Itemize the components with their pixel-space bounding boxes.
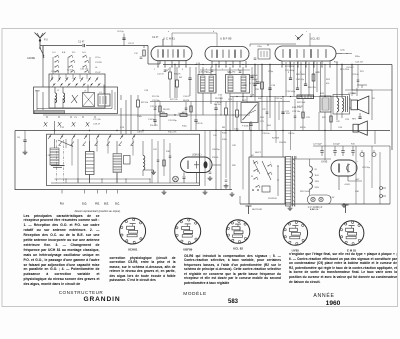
extra verticals T2 T3 gap	[251, 67, 253, 97]
density verticals right bottom	[355, 146, 357, 204]
UCL82 top cap symbol	[297, 34, 303, 40]
svg-text:6: 6	[182, 69, 183, 71]
svg-text:R18 1MΩ: R18 1MΩ	[296, 74, 305, 76]
svg-text:C28: C28	[232, 145, 237, 147]
third switch column	[54, 56, 55, 57]
svg-text:C7 1,5k: C7 1,5k	[93, 119, 101, 121]
socket UCH81	[120, 218, 146, 244]
footer 1960	[299, 300, 367, 307]
svg-text:L4: L4	[95, 67, 98, 69]
svg-text:6,3V: 6,3V	[330, 197, 335, 199]
svg-text:C2 1n: C2 1n	[95, 57, 101, 59]
svg-text:a: a	[168, 31, 170, 33]
svg-text:( EM 81 ): ( EM 81 )	[192, 155, 202, 157]
mid bus wire	[230, 96, 345, 98]
svg-text:HP2: HP2	[352, 119, 357, 121]
electrolytic C27	[360, 153, 364, 157]
left vertical wires upper	[42, 46, 44, 56]
svg-text:130V: 130V	[315, 181, 320, 183]
wire from tuner to antenna line	[123, 34, 125, 46]
svg-text:b: b	[213, 31, 214, 33]
resistor R4	[176, 80, 179, 87]
wires below mid bus to bottom	[261, 101, 263, 130]
svg-text:R25: R25	[322, 117, 327, 119]
svg-text:R20 22k: R20 22k	[308, 87, 317, 89]
misc caps on bus 115	[153, 119, 156, 121]
svg-text:C24: C24	[153, 149, 158, 151]
svg-text:P 500k: P 500k	[242, 126, 249, 128]
junction dots on buses	[174, 64, 175, 65]
svg-text:R12: R12	[334, 62, 339, 64]
bank to box verticals	[51, 74, 53, 79]
svg-text:B.E.: B.E.	[104, 203, 109, 206]
resistor R3	[169, 72, 172, 79]
svg-text:C24 4n7: C24 4n7	[346, 67, 354, 69]
trimmer row under box	[44, 122, 47, 127]
svg-text:C21: C21	[260, 121, 265, 123]
coil L1	[55, 93, 57, 103]
svg-text:C16: C16	[218, 95, 223, 97]
svg-text:SECT.: SECT.	[255, 152, 262, 154]
diagonal gang line	[58, 140, 73, 147]
svg-text:R4: R4	[179, 77, 183, 79]
svg-text:C25μ: C25μ	[268, 71, 274, 73]
extra verticals near pot	[220, 97, 222, 116]
ground left of caption	[163, 190, 165, 192]
svg-text:C12: C12	[60, 127, 65, 129]
coil L7 hatched	[50, 148, 59, 165]
svg-text:C24a: C24a	[340, 50, 346, 52]
antenna	[39, 38, 41, 48]
svg-text:110/220: 110/220	[279, 142, 287, 144]
trimmer row contacts	[46, 116, 47, 117]
svg-text:POT.: POT.	[242, 100, 247, 102]
tube UCH81	[151, 46, 192, 61]
svg-text:C27 50μF: C27 50μF	[313, 144, 323, 146]
tuner switch contacts row1	[51, 78, 52, 79]
svg-text:G.O.: G.O.	[82, 203, 87, 206]
svg-text:R22 1kΩ: R22 1kΩ	[297, 102, 306, 104]
filter capacitors row	[320, 150, 323, 152]
svg-text:1kΩ: 1kΩ	[267, 125, 271, 127]
svg-text:C18: C18	[144, 90, 149, 92]
svg-text:4: 4	[168, 69, 169, 71]
svg-text:C: 22n: C: 22n	[178, 113, 185, 115]
svg-text:C25: C25	[345, 119, 350, 121]
tube UCL82	[275, 46, 336, 61]
text column 1	[24, 214, 100, 288]
svg-text:R21 220k: R21 220k	[340, 69, 350, 71]
svg-text:R24: R24	[260, 117, 265, 119]
svg-text:CADRE: CADRE	[27, 57, 36, 60]
UY85 pins	[338, 176, 340, 190]
svg-text:6,3V: 6,3V	[310, 209, 315, 211]
svg-text:C: 470pF: C: 470pF	[249, 75, 258, 77]
text column 2	[110, 256, 176, 284]
coil element mid	[113, 154, 122, 173]
svg-text:R3 27k: R3 27k	[174, 74, 182, 76]
socket UCL82	[226, 220, 250, 244]
svg-text:C29: C29	[336, 121, 341, 123]
svg-text:+240V: +240V	[344, 184, 351, 186]
svg-text:R27 1M: R27 1M	[272, 138, 279, 140]
bottom rail power	[240, 203, 390, 205]
key symbol above UY85	[248, 206, 250, 214]
svg-text:C14 5n: C14 5n	[148, 119, 156, 121]
output transformer	[337, 98, 339, 112]
svg-text:R9 1MΩ: R9 1MΩ	[215, 98, 223, 100]
svg-text:B.E.: B.E.	[62, 52, 66, 54]
long bus y130	[15, 130, 390, 132]
svg-text:R1 2,2k: R1 2,2k	[170, 99, 178, 101]
footer 583	[198, 299, 268, 305]
svg-text:R2 15k: R2 15k	[141, 102, 149, 104]
svg-text:2Ω: 2Ω	[372, 98, 375, 100]
svg-text:UBF89: UBF89	[183, 248, 193, 252]
svg-text:R25 150Ω: R25 150Ω	[300, 191, 310, 193]
text column 3	[184, 254, 281, 286]
svg-text:C20 5n: C20 5n	[275, 98, 283, 100]
svg-text:R24: R24	[286, 113, 291, 115]
svg-text:C30 1n: C30 1n	[137, 132, 143, 134]
IF transformer 1	[198, 75, 216, 94]
svg-text:+: +	[369, 161, 371, 163]
svg-text:L2 C9: L2 C9	[67, 70, 74, 72]
svg-text:UCL 82: UCL 82	[310, 37, 320, 41]
svg-text:R12a: R12a	[222, 139, 228, 141]
svg-text:UCL 82: UCL 82	[233, 247, 243, 251]
wire transformer to UY85	[292, 158, 331, 160]
footer annee	[290, 293, 358, 299]
electrolytic C28	[372, 153, 376, 157]
band switch bank	[68, 56, 69, 57]
capacitor C10	[188, 77, 191, 79]
tube UBF89	[205, 47, 249, 62]
cluster left of T3	[258, 49, 270, 59]
svg-text:R23: R23	[326, 79, 331, 81]
svg-text:R2 1k: R2 1k	[300, 127, 307, 129]
tuner switch contacts row2	[53, 84, 54, 85]
transfo BF winding	[89, 134, 91, 151]
text column 4	[289, 252, 397, 284]
ferrite rod cadre	[35, 111, 65, 114]
wires IFT to UBF89	[202, 67, 204, 75]
switch row in lower box	[59, 142, 63, 146]
bottom bus in box	[51, 182, 200, 184]
wire left into tuner	[42, 46, 44, 87]
extra mid verticals and parts	[154, 102, 156, 116]
top stubs above tubes	[171, 33, 173, 46]
switch contacts mains	[253, 162, 254, 163]
svg-text:R16: R16	[351, 144, 356, 146]
svg-text:220V: 220V	[315, 187, 320, 189]
detector components	[253, 83, 256, 85]
dark resistor bar row	[297, 95, 314, 99]
svg-text:C30: C30	[355, 191, 360, 193]
density verticals lower box right	[151, 139, 153, 183]
lower box extra verticals	[71, 139, 73, 166]
EM81 right wire	[212, 164, 221, 166]
small rect component	[124, 156, 131, 165]
choke coil	[143, 156, 145, 170]
extra verticals between T1 T2	[195, 67, 197, 115]
T3 anode wire	[336, 53, 342, 55]
svg-text:C23 2n: C23 2n	[352, 74, 360, 76]
oscillator coil box	[83, 93, 95, 107]
svg-text:C13 47: C13 47	[93, 124, 101, 126]
svg-text:C3 220: C3 220	[95, 62, 103, 64]
ground in box	[153, 170, 155, 172]
capacitor C1	[82, 44, 84, 47]
trimmer CV1	[72, 95, 77, 103]
density verticals between boxes	[204, 131, 206, 186]
antenna switch	[40, 48, 44, 56]
socket EM81	[339, 221, 364, 246]
grounds along bottom	[204, 190, 206, 192]
svg-text:L3: L3	[84, 91, 87, 93]
footer modele	[160, 292, 230, 297]
svg-text:R: 1 MΩ: R: 1 MΩ	[249, 83, 257, 85]
svg-text:R1 2,2k: R1 2,2k	[152, 96, 160, 98]
svg-text:R11a 27k: R11a 27k	[168, 132, 176, 134]
socket UY85	[283, 221, 308, 246]
svg-text:C19 100p: C19 100p	[286, 91, 296, 93]
svg-text:S1: S1	[251, 176, 253, 178]
svg-text:I: I	[270, 162, 271, 164]
power transformer primary ladder	[286, 157, 292, 207]
svg-text:C23 10n: C23 10n	[292, 111, 301, 113]
svg-text:P.O.: P.O.	[95, 203, 100, 206]
svg-text:C11 50μ: C11 50μ	[152, 100, 161, 102]
svg-text:R8: R8	[222, 127, 226, 129]
coil box L5	[98, 94, 110, 106]
capacitor C25 to HP2	[358, 116, 361, 118]
footer grandin	[20, 296, 184, 303]
AVC resistor chain	[160, 114, 167, 117]
svg-text:C13 220p: C13 220p	[168, 120, 178, 122]
footer constructeur	[0, 290, 162, 295]
mains switch box	[249, 157, 285, 204]
svg-text:R13a: R13a	[222, 133, 228, 135]
svg-text:110/220V: 110/220V	[268, 198, 277, 200]
speaker HP2	[353, 124, 358, 132]
svg-text:C14a: C14a	[137, 116, 143, 118]
svg-text:C23: C23	[306, 117, 311, 119]
svg-text:g: g	[288, 72, 289, 74]
speaker HP1 wires	[356, 88, 358, 96]
EM81 pins	[183, 173, 185, 177]
svg-text:C20: C20	[243, 85, 248, 87]
svg-text:R12 2k: R12 2k	[196, 123, 204, 125]
UBF89 pins	[211, 61, 213, 67]
svg-text:R26: R26	[232, 165, 237, 167]
svg-text:C6: C6	[17, 137, 21, 139]
svg-text:C29 50μ: C29 50μ	[362, 167, 371, 169]
wire C1 to grid bus	[86, 45, 148, 47]
svg-text:R15 2k: R15 2k	[212, 157, 218, 159]
tube EM81	[181, 157, 213, 173]
svg-text:110V: 110V	[315, 175, 320, 177]
AF coupling parts	[214, 107, 217, 109]
svg-text:k: k	[318, 72, 319, 74]
pin dots under tubes	[157, 66, 158, 67]
UCL82 pins	[281, 61, 283, 67]
svg-text:R7a 470: R7a 470	[150, 125, 158, 127]
mains small parts	[262, 186, 270, 192]
svg-text:R10a: R10a	[182, 126, 188, 128]
svg-text:C12 47: C12 47	[157, 74, 165, 76]
lower box bottom wiring	[55, 178, 151, 180]
resistor divider right	[320, 96, 331, 112]
svg-text:C11 50: C11 50	[150, 106, 158, 108]
IF transformer 2	[226, 75, 250, 94]
tuner inner box	[49, 74, 105, 108]
svg-text:C33 10n: C33 10n	[262, 133, 270, 135]
wire top right to T3	[267, 44, 269, 46]
svg-text:R9 1M: R9 1M	[214, 104, 221, 106]
ground transformer	[289, 206, 291, 208]
bus branch wires	[174, 65, 176, 99]
svg-text:C1 47: C1 47	[78, 41, 85, 44]
tuner outer box	[34, 87, 118, 114]
svg-text:G.O.: G.O.	[82, 52, 87, 54]
svg-text:C12: C12	[134, 53, 139, 55]
speaker HP1	[351, 100, 357, 110]
svg-text:1: 1	[154, 69, 155, 71]
wire antenna to C1	[40, 45, 82, 47]
svg-text:R19: R19	[255, 89, 260, 91]
svg-text:SECTEUR: SECTEUR	[252, 209, 262, 211]
under tube stubs	[200, 69, 250, 71]
misc vertical wires mid schematic	[285, 62, 287, 96]
svg-text:C4 47: C4 47	[152, 36, 159, 39]
volume potentiometer	[241, 103, 258, 123]
svg-text:C18 47p: C18 47p	[296, 79, 305, 81]
lower-left box	[47, 134, 200, 185]
svg-text:P.U.: P.U.	[60, 203, 65, 206]
bottom bus 2	[15, 189, 232, 191]
grid wire to UCH81	[147, 56, 149, 64]
svg-text:C26a: C26a	[257, 46, 263, 48]
key symbol above EM81	[345, 205, 347, 213]
svg-text:0V: 0V	[315, 169, 318, 171]
svg-text:c: c	[306, 31, 307, 33]
wires right section	[336, 62, 338, 90]
dial lamps box	[308, 195, 332, 204]
svg-text:C19: C19	[271, 85, 276, 87]
caps on T3 pins	[289, 77, 292, 79]
left rail components	[23, 139, 26, 141]
UCH81 pins	[157, 61, 159, 67]
svg-text:CV: CV	[74, 117, 78, 119]
svg-text:C17 200p: C17 200p	[285, 70, 295, 72]
svg-text:U B F 89: U B F 89	[220, 37, 232, 41]
density verticals right mid	[351, 65, 353, 97]
svg-text:UCH81: UCH81	[128, 247, 138, 251]
svg-text:C9 12p: C9 12p	[117, 31, 125, 33]
svg-text:C21: C21	[228, 99, 233, 101]
transformer secondary coil	[310, 166, 313, 189]
svg-text:C10 12p: C10 12p	[80, 69, 89, 71]
svg-text:O.C.: O.C.	[52, 52, 57, 54]
tube UY85	[331, 160, 357, 176]
transformer core	[292, 156, 294, 207]
svg-text:R8 470: R8 470	[163, 109, 171, 111]
svg-text:2x50μF: 2x50μF	[333, 144, 340, 146]
band switch top row lower box	[49, 136, 50, 137]
svg-text:C31: C31	[213, 135, 218, 137]
svg-text:C22: C22	[262, 109, 267, 111]
top bus wire	[163, 64, 392, 66]
svg-text:+HT: +HT	[355, 179, 360, 181]
svg-text:C24 4n7: C24 4n7	[355, 62, 364, 64]
svg-text:C15a: C15a	[206, 72, 211, 74]
svg-text:C13: C13	[120, 127, 125, 129]
svg-text:C.V. 2x490 pF: C.V. 2x490 pF	[308, 207, 323, 209]
tuner internal wires	[36, 90, 38, 110]
socket UBF89	[175, 218, 201, 244]
coil L2	[63, 93, 65, 103]
bus y115	[43, 114, 250, 116]
wires tuner to mixer	[120, 108, 122, 134]
svg-text:MCE: MCE	[35, 91, 40, 93]
svg-text:UY85: UY85	[321, 161, 328, 164]
svg-text:1/2 W: 1/2 W	[297, 106, 302, 108]
dash-dot linkage lines	[56, 140, 58, 184]
resistor right of tuner	[137, 100, 140, 107]
mid bus wire 2	[150, 101, 290, 103]
svg-text:47k: 47k	[326, 83, 330, 85]
svg-text:C9 12: C9 12	[128, 43, 135, 45]
svg-text:O.C.: O.C.	[115, 203, 120, 206]
output transformer box	[333, 95, 350, 115]
wire bus130 junctions	[54, 130, 55, 131]
svg-text:C34 5n: C34 5n	[288, 133, 294, 135]
mid band extra verticals 250-340	[258, 102, 260, 131]
svg-text:L7B: L7B	[47, 155, 51, 157]
cluster left of T1	[143, 50, 145, 56]
mains plug	[380, 187, 383, 190]
svg-text:R20a: R20a	[355, 56, 361, 58]
verticals from bus130 down	[215, 131, 217, 190]
svg-text:C26 25μ: C26 25μ	[212, 149, 220, 151]
svg-text:C16 5n: C16 5n	[215, 102, 223, 104]
HT wire	[313, 145, 390, 147]
svg-text:C14 47: C14 47	[183, 96, 191, 98]
svg-text:C: 200pF: C: 200pF	[249, 79, 258, 81]
svg-text:C26: C26	[338, 127, 343, 129]
svg-text:U C H 81: U C H 81	[163, 37, 175, 41]
caps under T1 T2 pins	[164, 69, 167, 71]
svg-text:+: +	[357, 161, 359, 163]
svg-text:L5: L5	[100, 92, 103, 94]
ground bar under L7	[51, 165, 65, 167]
svg-text:Dessin représentant (position: Dessin représentant (position au repos).	[75, 209, 121, 213]
pilot lamp left	[173, 176, 179, 182]
svg-text:P.U: P.U	[44, 39, 48, 42]
svg-text:L1: L1	[57, 90, 60, 92]
svg-text:P.O.: P.O.	[72, 52, 76, 54]
svg-text:R21: R21	[360, 71, 365, 73]
ground power	[343, 203, 345, 205]
